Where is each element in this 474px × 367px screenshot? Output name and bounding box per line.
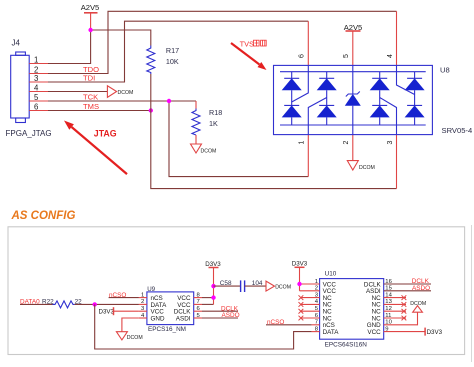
U10 pin numbers left [315,279,319,333]
svg-text:15: 15 [385,286,392,292]
svg-text:DCOM: DCOM [275,285,291,291]
svg-text:EPCS16_NM: EPCS16_NM [148,326,186,333]
ground DCOM (under R18) [191,144,217,155]
svg-text:12: 12 [385,306,392,312]
wire U9 pin7 to D3V3 column [202,303,214,305]
svg-text:7: 7 [197,299,200,305]
svg-text:16: 16 [385,279,392,285]
svg-text:10: 10 [385,320,392,326]
wire TCK branch down to U8 pin1 [169,101,308,177]
U8 center zener diode [345,72,361,125]
node junction DATA0 [93,302,97,306]
svg-text:DCOM: DCOM [118,90,134,96]
svg-text:2: 2 [141,299,144,305]
U8 internal pin connection pin4 [397,65,415,94]
svg-text:ASDO: ASDO [222,312,240,319]
U10 right wires DCLK/ASDO [384,283,431,285]
svg-text:7: 7 [315,320,318,326]
svg-text:TMS: TMS [83,102,99,111]
svg-text:TDI: TDI [83,74,95,83]
wire C58 to ground [245,285,266,287]
annotation TVS array text [240,39,267,48]
svg-text:1: 1 [141,292,144,298]
J4 pin stubs 1-6 [29,64,48,111]
svg-text:9: 9 [385,326,388,332]
svg-text:R17: R17 [166,46,179,55]
ground DCOM (C58, right-pointing) [266,281,291,291]
node junction at A2V5 [88,28,92,32]
svg-text:TCK: TCK [83,93,98,102]
U10 right NC stubs with X [384,295,407,320]
U8 internal rails [280,72,426,125]
svg-text:AS CONFIG: AS CONFIG [11,210,76,222]
annotation arrow to TVS [231,43,267,70]
wire nCSO to U9 pin1 [109,297,139,299]
node junction TMS [149,108,153,112]
TOP SECTION: JTAG circuit [6,3,473,189]
wire U10 pin10 GND to DCOM [384,312,418,325]
svg-text:VCC: VCC [367,329,381,336]
svg-text:DCOM: DCOM [127,335,143,341]
U9 box [147,292,194,325]
svg-text:DCOM: DCOM [359,165,375,171]
J4 pin numbers [34,55,39,111]
svg-text:ASDO: ASDO [412,285,430,292]
resistor R17 [147,46,179,111]
U8 diode pair column 4 [405,72,425,125]
node junction U10 D3V3 [297,282,301,286]
wire U9 pin4 GND down [122,318,139,332]
node junction TCK [167,99,171,103]
svg-text:SRV05-4: SRV05-4 [442,126,473,135]
wire nCSO to U10 pin7 [266,324,312,326]
svg-text:3: 3 [34,74,38,83]
ground DCOM (pin4, right-pointing) [107,86,133,98]
svg-text:J4: J4 [12,39,21,48]
power D3V3 (above U10) [292,261,308,291]
svg-text:R18: R18 [209,108,222,117]
wire DATA0 branch down to U10 pin8 [95,304,312,349]
power D3V3 (above C58) [205,261,221,304]
wire U9 pin8 to D3V3 column [202,297,214,299]
svg-text:DCOM: DCOM [410,301,426,307]
node junction pin8 tap [211,295,215,299]
svg-text:1: 1 [315,279,318,285]
U10 pin numbers right [385,279,392,333]
svg-text:6: 6 [34,102,38,111]
svg-text:DCOM: DCOM [201,149,217,155]
wire U9 pin6 DCLK [202,310,238,312]
U8 internal pin connection pin1 [308,98,326,135]
power A2V5 (above U8 pin5) [344,23,363,32]
svg-text:11: 11 [385,313,391,319]
svg-text:2: 2 [343,140,350,144]
wire to C58 [214,285,241,287]
wire R22 to U9 pin2 [75,303,139,305]
svg-text:D3V3: D3V3 [427,329,443,336]
U9 pin numbers [141,292,201,318]
annotation arrow to JTAG [64,121,127,175]
U8 internal pin connection pin2 [352,125,354,135]
svg-text:JTAG: JTAG [94,129,117,139]
svg-text:ASDI: ASDI [176,315,191,322]
svg-text:D3V3: D3V3 [99,309,115,316]
svg-text:DATA: DATA [323,329,340,336]
svg-text:C58: C58 [220,280,232,287]
svg-text:GND: GND [151,315,165,322]
wire TMS branch down to U8 pin3 [151,111,397,189]
power D3V3 (right of U10) [425,328,443,337]
svg-text:5: 5 [34,93,39,102]
U8 diode pair column 1 [282,72,302,125]
svg-text:5: 5 [343,54,350,58]
resistor R22 [42,298,82,308]
section border box [8,227,465,355]
svg-text:2: 2 [315,286,318,292]
U8 box [274,65,433,134]
ground DCOM (U10, up-pointing) [410,301,426,312]
resistor R18 [192,101,222,144]
svg-text:U10: U10 [325,271,337,278]
svg-text:FPGA_JTAG: FPGA_JTAG [6,129,52,138]
U9 pin names [151,295,192,322]
U8 diode pair column 2 [317,72,337,125]
power D3V3 (left of U9) [99,307,139,315]
U10 pin7 stub [312,324,320,326]
wire TDI: pin3 to second rail to U8 pin6 [48,21,308,82]
svg-text:3: 3 [387,140,394,144]
U8 pin numbers top 6,5,4 [299,54,395,145]
svg-text:U8: U8 [440,66,450,75]
connector J4 [11,39,30,123]
U10 pin names [323,281,382,336]
svg-text:4: 4 [387,54,394,58]
ground DCOM (U9 pin4) [116,332,142,341]
wire A2V5 down to J4 pin1 [48,30,91,64]
wire DATA0 to R22 [20,303,53,305]
svg-text:1: 1 [299,140,306,144]
svg-text:14: 14 [385,292,392,298]
U9 pin stubs [139,298,202,318]
svg-text:10K: 10K [166,57,179,66]
wire TMS: pin6 to R17 column [48,110,151,112]
ground DCOM (U8 pin2) [347,161,375,171]
wire U10 pin1 [300,283,320,285]
svg-text:1: 1 [34,55,38,64]
U10 pin8 stub [312,331,320,333]
capacitor C58 [220,280,263,292]
BOTTOM SECTION: AS CONFIG [8,210,465,355]
wire TCK: pin5 to R18 column [48,100,196,102]
wire A2V5 to R17 top [91,30,151,46]
svg-text:4: 4 [34,83,39,92]
U10 box [320,279,384,340]
wire TDO: pin2 to top rail to U8 pin4 [48,11,397,73]
svg-text:A2V5: A2V5 [81,3,100,12]
wire U10 pin9 VCC to D3V3 [384,331,425,333]
node junction C58 tap [211,284,215,288]
U8 pin risers (red stubs) [308,11,396,188]
U8 diode pair column 3 [370,72,390,125]
svg-text:EPCS64SI16N: EPCS64SI16N [325,342,368,349]
U10 left NC stubs with X [299,295,320,320]
U8 internal pin connection pin3 [380,98,397,135]
window edge line [471,225,473,362]
wire U10 pin2 [300,290,320,292]
svg-text:1K: 1K [209,119,218,128]
svg-text:6: 6 [299,54,306,58]
power A2V5 (top left) [81,3,100,30]
svg-text:TVS: TVS [240,39,254,48]
svg-text:R22: R22 [42,298,54,305]
wire pin4 to DCOM [48,91,107,93]
wire U9 pin5 ASDI [202,317,238,319]
U8 internal pin connection pin6 [292,65,309,102]
U8 internal pin connection pin5 [352,65,354,71]
svg-text:13: 13 [385,299,392,305]
svg-text:U9: U9 [147,286,155,293]
